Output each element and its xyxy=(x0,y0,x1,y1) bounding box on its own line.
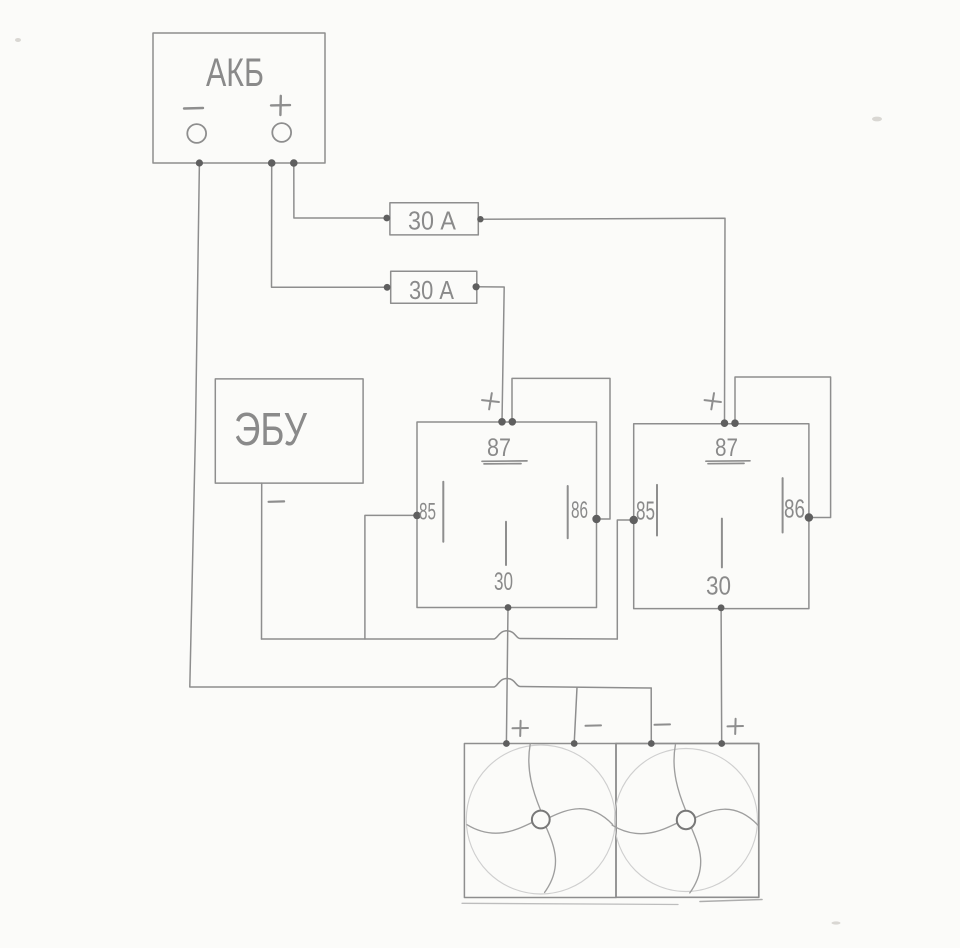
svg-text:86: 86 xyxy=(784,494,805,524)
svg-text:30: 30 xyxy=(706,571,731,601)
svg-text:87: 87 xyxy=(715,434,738,462)
svg-text:87: 87 xyxy=(487,434,511,462)
svg-text:85: 85 xyxy=(419,499,436,526)
svg-text:85: 85 xyxy=(636,496,655,526)
svg-text:30: 30 xyxy=(494,568,513,596)
svg-text:30 А: 30 А xyxy=(408,206,457,236)
svg-text:30 А: 30 А xyxy=(409,275,455,305)
svg-text:АКБ: АКБ xyxy=(206,51,264,95)
svg-text:86: 86 xyxy=(571,497,588,524)
svg-text:ЭБУ: ЭБУ xyxy=(234,403,308,455)
